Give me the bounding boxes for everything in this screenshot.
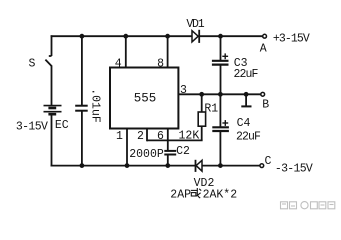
label pin 4 xyxy=(115,57,122,70)
svg-text:R1: R1 xyxy=(204,102,218,115)
svg-text:22uF: 22uF xyxy=(233,68,258,81)
wire pin 8 stub xyxy=(167,36,169,67)
label C4 22uF xyxy=(236,131,261,144)
resistor R1 body xyxy=(198,112,205,126)
svg-text:22uF: 22uF xyxy=(236,131,261,144)
wire R1 lower lead xyxy=(201,126,203,140)
label 12K xyxy=(179,129,200,142)
label 2AP-or glyph hand drawn xyxy=(191,188,201,198)
terminal B circle xyxy=(261,92,265,96)
wire pin 2 stub xyxy=(146,129,148,142)
capacitor C4 plates xyxy=(212,127,229,131)
svg-text:VD1: VD1 xyxy=(186,18,204,31)
label C2 xyxy=(176,145,190,158)
label S xyxy=(29,57,36,70)
switch S blade xyxy=(45,60,52,67)
label terminal C xyxy=(265,155,272,168)
label R1 xyxy=(204,102,218,115)
capacitor C1 .01uF plates xyxy=(75,106,88,111)
label terminal A xyxy=(260,43,267,56)
label pin 6 xyxy=(157,130,164,143)
svg-text:EC: EC xyxy=(55,119,69,132)
svg-text:A: A xyxy=(260,43,267,56)
wire R1 upper lead xyxy=(201,94,203,112)
label terminal B xyxy=(262,98,269,111)
node dot top rail pin8 xyxy=(165,34,170,39)
svg-text:1: 1 xyxy=(116,130,123,143)
node dot bottom rail C4 xyxy=(218,163,223,168)
svg-text:C2: C2 xyxy=(176,145,190,158)
wire pin 4 stub xyxy=(125,36,127,67)
capacitor C2 plates xyxy=(164,151,176,155)
svg-text:12K: 12K xyxy=(179,129,200,142)
label pin 3 xyxy=(180,84,187,97)
wire battery to bottom rail xyxy=(51,115,53,167)
wire pin 3 output line xyxy=(178,93,261,95)
svg-text:2000P: 2000P xyxy=(129,148,164,161)
terminal C circle xyxy=(260,164,264,168)
battery EC plates xyxy=(44,106,62,115)
wire C2 to bottom rail xyxy=(167,155,169,166)
ground stub at node B xyxy=(241,94,251,106)
node dot top rail C3 xyxy=(218,34,223,39)
svg-text:6: 6 xyxy=(157,130,164,143)
wire pins 2-6 tie bar xyxy=(147,139,203,141)
label .01uF xyxy=(89,88,102,123)
node dot top rail pin4 xyxy=(123,34,128,39)
label VD2 xyxy=(194,177,215,190)
svg-text:C4: C4 xyxy=(237,117,251,130)
label 555 xyxy=(134,92,157,106)
op-amp U1 555 timer box xyxy=(110,68,178,129)
wire left branch upper (to switch) xyxy=(49,35,52,56)
wire switch to battery xyxy=(51,66,53,105)
label C3 xyxy=(234,57,248,70)
capacitor C3 plates xyxy=(212,61,229,65)
node dot pin3 ground xyxy=(244,92,249,97)
capacitor C3 plus sign xyxy=(222,53,228,59)
capacitor C1 .01uF branch upper wire xyxy=(81,36,83,106)
watermark toutiao xyxy=(281,202,335,209)
wire C4 lower lead xyxy=(219,131,221,166)
label 2AP or 2AK x2 xyxy=(170,189,237,202)
label 2000P xyxy=(129,148,164,161)
wire bottom rail left segment xyxy=(51,165,196,167)
label C3 22uF xyxy=(233,68,258,81)
terminal A circle xyxy=(263,34,267,38)
node dot pin3 R1 xyxy=(199,92,204,97)
label pin 2 xyxy=(137,130,144,143)
node dot bottom rail C2 xyxy=(165,163,170,168)
label pin 8 xyxy=(157,57,164,70)
svg-text:3: 3 xyxy=(180,84,187,97)
label EC xyxy=(55,119,69,132)
label C4 xyxy=(237,117,251,130)
wire top rail left segment xyxy=(51,35,192,37)
wire C4 upper lead xyxy=(219,94,221,127)
wire bottom rail right segment xyxy=(202,165,260,167)
wire top rail right segment xyxy=(200,35,263,37)
node dot top rail C1 xyxy=(80,34,85,39)
svg-text:+3-15V: +3-15V xyxy=(273,33,310,46)
svg-text:.01uF: .01uF xyxy=(89,88,102,123)
label VD1 xyxy=(186,18,204,31)
diode VD1 xyxy=(192,30,199,43)
capacitor C4 plus sign xyxy=(222,120,228,126)
svg-text:2AP: 2AP xyxy=(170,189,191,202)
svg-text:4: 4 xyxy=(115,57,122,70)
label pin 1 xyxy=(116,130,123,143)
wire C3 lower lead xyxy=(220,65,222,95)
svg-text:B: B xyxy=(262,98,269,111)
wire C3 upper lead xyxy=(220,36,222,61)
label -3-15V xyxy=(275,162,313,175)
svg-text:S: S xyxy=(29,57,36,70)
svg-text:2: 2 xyxy=(137,130,144,143)
node dot pin3 C4 xyxy=(218,92,223,97)
wire pin 1 stub xyxy=(126,129,128,166)
svg-text:2AK*2: 2AK*2 xyxy=(203,189,238,202)
label +3-15V xyxy=(273,33,310,46)
node dot bottom rail pin1 xyxy=(125,163,130,168)
svg-text:555: 555 xyxy=(134,92,157,106)
svg-text:3-15V: 3-15V xyxy=(16,120,48,133)
capacitor C1 .01uF branch lower wire xyxy=(81,111,83,166)
wire pin 6 stub to C2 xyxy=(167,129,169,151)
svg-text:8: 8 xyxy=(157,57,164,70)
node dot bottom rail C1 xyxy=(80,163,85,168)
svg-text:-3-15V: -3-15V xyxy=(275,162,313,175)
diode VD2 xyxy=(196,160,203,172)
label 3-15V xyxy=(16,120,48,133)
svg-text:C: C xyxy=(265,155,272,168)
